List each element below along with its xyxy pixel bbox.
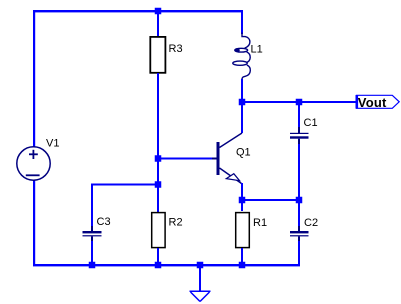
wire C3 column upper — [91, 184, 93, 227]
resistor R1 — [236, 213, 250, 248]
wire R2 bottom stub — [157, 248, 159, 265]
svg-text:R2: R2 — [169, 217, 183, 229]
capacitor C2 — [290, 226, 309, 242]
wire C3 horizontal — [92, 184, 158, 186]
wire R1 bottom stub — [241, 248, 243, 265]
wire C1 column upper — [298, 102, 300, 128]
wire L1 top stub — [241, 11, 243, 34]
wire middle column — [157, 73, 159, 212]
svg-text:Vout: Vout — [358, 95, 387, 110]
svg-text:Q1: Q1 — [236, 147, 251, 159]
wire bottom rail — [33, 264, 300, 266]
transistor Q1 — [212, 133, 242, 184]
wire ground stub — [199, 264, 201, 291]
wire emitter node horizontal — [242, 199, 300, 201]
net flag Vout — [356, 95, 400, 109]
wire base — [158, 158, 212, 160]
wire left rail lower — [33, 179, 35, 266]
junction base node — [155, 155, 162, 162]
junction C1 C2 — [296, 197, 303, 204]
capacitor C1 — [290, 127, 309, 145]
wire L1 bottom stub — [241, 79, 243, 103]
wire R1 top stub — [241, 200, 243, 211]
wire Vout net — [242, 101, 356, 103]
resistor R3 — [150, 37, 165, 73]
wire C3 column lower — [91, 241, 93, 265]
wire emitter vertical — [241, 183, 243, 201]
svg-text:L1: L1 — [251, 44, 263, 56]
junction R1 bottom — [239, 262, 246, 269]
junction R2 bottom — [155, 262, 162, 269]
junction emitter R1 — [239, 197, 246, 204]
junction top rail R3 — [155, 8, 162, 15]
wire C1 column lower — [298, 144, 300, 201]
svg-text:V1: V1 — [46, 138, 59, 150]
wire C2 column upper — [298, 200, 300, 227]
svg-text:C3: C3 — [97, 216, 111, 228]
svg-text:R3: R3 — [169, 43, 183, 55]
wire R3 stub top — [157, 11, 159, 37]
wire left rail upper — [33, 10, 35, 148]
resistor R2 — [152, 213, 165, 248]
voltage source V1 — [17, 147, 50, 180]
capacitor C3 — [83, 226, 102, 242]
junction Vout C1 — [296, 99, 303, 106]
svg-text:R1: R1 — [253, 217, 267, 229]
svg-text:C1: C1 — [304, 117, 318, 129]
wire collector vertical — [241, 102, 243, 133]
junction ground — [197, 262, 204, 269]
ground — [190, 291, 211, 301]
wire top rail — [33, 10, 243, 12]
inductor L1 — [233, 33, 251, 80]
junction C3 bottom — [89, 262, 96, 269]
svg-text:C2: C2 — [304, 217, 318, 229]
junction R2 top C3 — [155, 181, 162, 188]
wire C2 column lower — [298, 241, 300, 266]
junction Vout L1 collector — [239, 99, 246, 106]
